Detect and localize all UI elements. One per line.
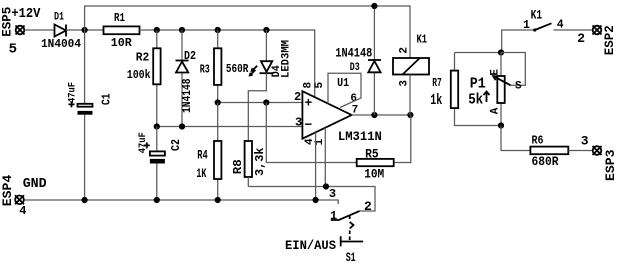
svg-text:3: 3: [329, 187, 336, 201]
svg-text:10R: 10R: [111, 37, 132, 50]
connector ESP5: [0, 6, 41, 57]
svg-text:1: 1: [523, 19, 530, 32]
svg-text:D2: D2: [184, 49, 196, 63]
svg-text:U1: U1: [337, 76, 349, 90]
svg-text:4: 4: [557, 19, 564, 32]
wire U1 pin5-pin6 loop around U1 label: [328, 73, 361, 107]
svg-text:S: S: [515, 81, 522, 93]
wire R1 to U1 pin8 corner: [140, 27, 315, 97]
svg-text:D1: D1: [54, 12, 64, 24]
capacitor C2 47uF: [138, 127, 183, 201]
LED D4 LED3MM: [250, 30, 292, 78]
svg-text:560R: 560R: [226, 62, 249, 76]
svg-text:R8: R8: [231, 159, 245, 174]
svg-text:−: −: [305, 117, 313, 132]
svg-text:5: 5: [314, 82, 326, 89]
resistor R8 3,3k: [231, 141, 267, 187]
relay contact K1: [502, 8, 593, 53]
svg-text:5k: 5k: [468, 92, 483, 109]
connector ESP2: [577, 25, 617, 55]
svg-text:47uF: 47uF: [67, 82, 78, 103]
wire ESP5 to D1: [25, 29, 55, 31]
svg-text:ESP2: ESP2: [602, 25, 617, 55]
svg-text:ESP4: ESP4: [0, 175, 15, 207]
resistor R2 100k: [127, 30, 161, 127]
wire pin2 row: [215, 99, 303, 105]
svg-text:D3: D3: [350, 62, 360, 74]
wire output row: [352, 112, 414, 118]
wire U1 pin1 to lineA: [324, 128, 326, 187]
svg-text:1N4148: 1N4148: [180, 79, 194, 114]
svg-text:R1: R1: [114, 11, 125, 25]
svg-text:8: 8: [303, 82, 315, 89]
capacitor C1 47uF: [67, 30, 113, 200]
svg-text:47uF: 47uF: [138, 132, 149, 153]
diode D3 1N4148: [335, 3, 381, 115]
svg-text:2: 2: [364, 199, 372, 214]
ground rail wire: [23, 197, 338, 204]
potentiometer P1 5k: [468, 53, 522, 126]
svg-text:1N4004: 1N4004: [41, 38, 81, 51]
resistor R1 10R: [104, 11, 140, 50]
svg-text:+12V: +12V: [11, 6, 41, 22]
svg-text:R7: R7: [432, 76, 442, 90]
svg-text:1N4148: 1N4148: [335, 46, 372, 60]
wire pin3 row: [154, 123, 303, 129]
svg-text:P1: P1: [470, 76, 486, 93]
resistor R4 1K: [196, 103, 221, 201]
svg-text:680R: 680R: [532, 155, 559, 169]
diode D1 1N4004: [41, 12, 81, 51]
connector ESP4 GND: [0, 175, 47, 218]
svg-text:K1: K1: [531, 8, 543, 23]
svg-text:E: E: [490, 69, 502, 76]
svg-text:GND: GND: [23, 176, 47, 192]
wire D4 cathode zig to R8: [248, 73, 266, 141]
svg-text:5: 5: [9, 41, 17, 57]
svg-text:EIN/AUS: EIN/AUS: [285, 239, 336, 253]
svg-text:3: 3: [295, 116, 302, 130]
svg-text:6: 6: [350, 93, 357, 105]
switch S1 EIN/AUS: [285, 187, 372, 264]
svg-text:3: 3: [581, 134, 589, 149]
svg-text:LM311N: LM311N: [338, 130, 382, 144]
svg-text:A: A: [490, 107, 502, 114]
svg-text:+: +: [305, 96, 313, 111]
svg-text:10M: 10M: [364, 167, 384, 181]
svg-text:4: 4: [19, 204, 26, 218]
wire +12V top loop rail: [85, 6, 410, 58]
node R7/P1 top junction: [455, 49, 505, 55]
resistor R5 10M feedback: [266, 103, 411, 182]
wire S-box wiper connection: [501, 53, 525, 86]
svg-text:S1: S1: [346, 251, 356, 264]
svg-text:100k: 100k: [127, 68, 151, 82]
resistor R7 1k: [430, 53, 501, 126]
wire D1 to R1 with node: [66, 27, 104, 33]
svg-text:1K: 1K: [196, 167, 206, 181]
wire lineA R8/pin1/switch: [248, 183, 375, 211]
op-amp U1 LM311N: [294, 76, 382, 146]
svg-text:2: 2: [577, 31, 585, 46]
svg-text:R4: R4: [197, 149, 208, 163]
svg-text:R2: R2: [136, 50, 150, 64]
relay K1 coil: [393, 32, 429, 115]
svg-text:1k: 1k: [430, 92, 442, 109]
wire U1 pin4 to ground: [315, 132, 317, 200]
svg-text:2: 2: [294, 90, 301, 104]
svg-text:C1: C1: [100, 94, 114, 106]
node R7/P1 bottom junction: [498, 122, 531, 150]
svg-text:R5: R5: [365, 148, 379, 162]
connector ESP3: [581, 134, 618, 181]
svg-text:ESP3: ESP3: [603, 149, 618, 181]
svg-text:R3: R3: [200, 63, 210, 77]
svg-text:LED3MM: LED3MM: [280, 40, 292, 78]
svg-text:R6: R6: [532, 134, 544, 148]
resistor R6 680R: [530, 134, 592, 170]
svg-text:3,3k: 3,3k: [253, 148, 267, 177]
resistor R3 560R: [200, 30, 249, 103]
svg-text:K1: K1: [417, 32, 428, 46]
svg-text:3: 3: [398, 80, 410, 87]
svg-text:2: 2: [398, 47, 410, 54]
diode D2 1N4148: [176, 30, 197, 127]
svg-text:C2: C2: [169, 139, 183, 151]
